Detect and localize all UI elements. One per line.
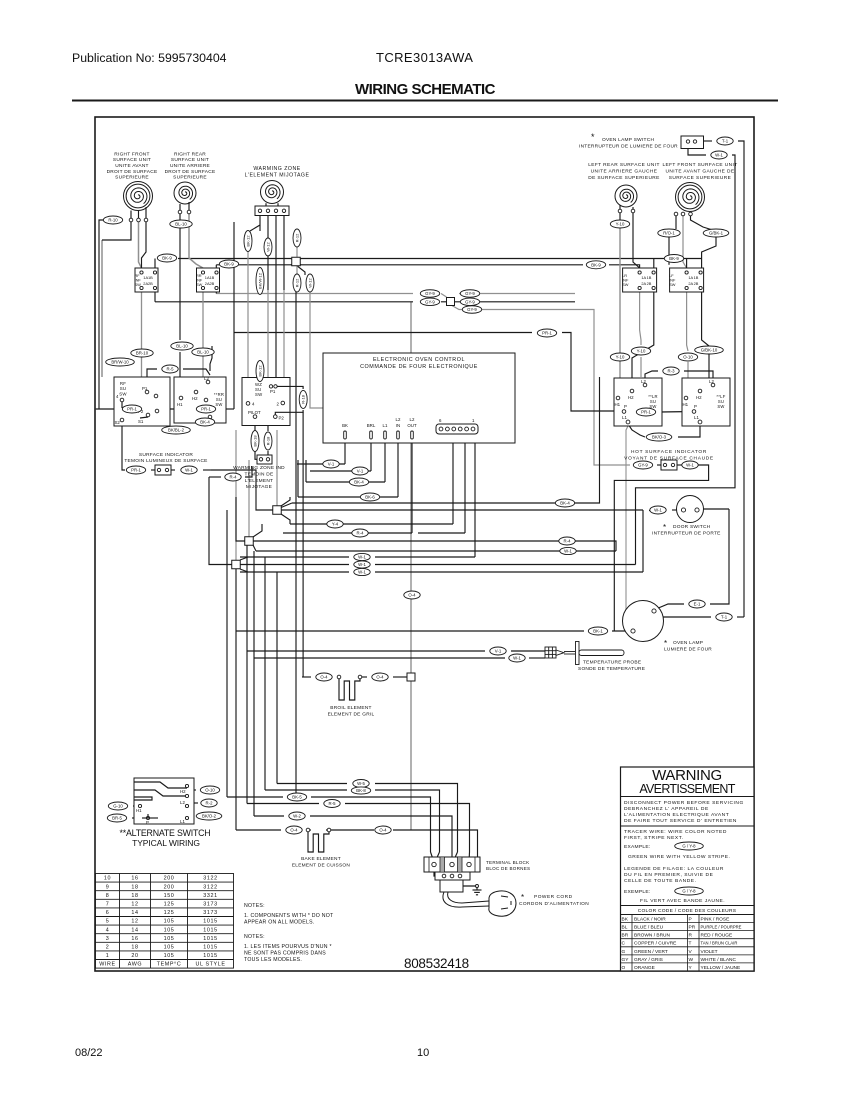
svg-text:W-1: W-1 [358, 562, 366, 567]
wire label G/BK-1 [703, 229, 729, 237]
wire label BL-10 [170, 220, 192, 228]
wire label O-4 broil right [372, 673, 388, 681]
wire label R-5 [162, 365, 178, 373]
svg-text:SUPERIEURE: SUPERIEURE [173, 175, 207, 181]
svg-text:PINK / ROSE: PINK / ROSE [701, 917, 730, 923]
svg-text:DISCONNECT POWER BEFORE SERVIC: DISCONNECT POWER BEFORE SERVICING [624, 800, 744, 806]
wire label W-5 [353, 780, 369, 788]
wire label Y-10 b [631, 347, 650, 355]
svg-text:R-5: R-5 [329, 801, 337, 806]
RF SU SW contacts [121, 402, 123, 408]
svg-text:BLUE / BLEU: BLUE / BLEU [634, 925, 664, 931]
wire label R-18 vertical right of WZ [299, 390, 307, 408]
T-1 chain vertical [704, 140, 713, 142]
right rear coil leads [179, 204, 181, 210]
svg-text:H2: H2 [696, 395, 702, 400]
svg-text:2B: 2B [647, 281, 652, 286]
wire label BK-4 rr [195, 418, 214, 426]
wire label V-1 b [352, 467, 368, 475]
RF INF out to RF SU [141, 292, 143, 377]
RR INF out to L2 [215, 288, 217, 294]
wire label BK-8 [351, 787, 370, 794]
wire label PR-1 lr [636, 408, 655, 416]
wz ind wires [254, 418, 256, 431]
svg-text:2: 2 [106, 945, 110, 951]
svg-text:O-4: O-4 [320, 675, 328, 680]
wire label BK-5 [287, 793, 306, 801]
S2 to indicator wire [122, 422, 125, 470]
svg-text:TRACER WIRE: WIRE COLOR NOTED: TRACER WIRE: WIRE COLOR NOTED [624, 829, 727, 835]
svg-text:2B: 2B [210, 281, 215, 286]
svg-text:AWG: AWG [128, 962, 142, 968]
svg-text:DE FAIRE TOUT SERVICE D’ ENTRE: DE FAIRE TOUT SERVICE D’ ENTRETIEN [624, 818, 737, 824]
svg-text:16: 16 [131, 876, 138, 882]
bundle [277, 783, 347, 785]
svg-text:10: 10 [417, 1047, 429, 1059]
svg-text:EXEMPLE:: EXEMPLE: [624, 889, 650, 895]
left links from squares [211, 470, 273, 510]
svg-text:20: 20 [131, 953, 138, 959]
svg-text:1. COMPONENTS WITH * DO NOT: 1. COMPONENTS WITH * DO NOT [244, 913, 334, 919]
svg-text:HOT SURFACE INDICATOR: HOT SURFACE INDICATOR [631, 449, 707, 455]
LR L1 gray drop [626, 424, 629, 631]
label typical wiring [132, 838, 200, 848]
svg-text:10: 10 [104, 876, 111, 882]
fan A to BK-4 [281, 503, 292, 508]
svg-text:BROWN / BRUN: BROWN / BRUN [634, 933, 671, 939]
wire label BK-18 below WZ [251, 431, 259, 452]
wire label PR-1 rr [196, 405, 215, 413]
svg-text:W-1: W-1 [185, 468, 193, 473]
switch LF INF SW [669, 268, 704, 292]
svg-text:LEGENDE DE FILAGE: LA COULEUR: LEGENDE DE FILAGE: LA COULEUR [624, 866, 724, 872]
RF INF out right [154, 288, 156, 302]
svg-text:W-1: W-1 [686, 463, 694, 468]
svg-text:OUT: OUT [407, 423, 417, 428]
switch RF SU SW box [114, 377, 170, 426]
svg-text:L2: L2 [709, 379, 714, 384]
svg-text:OVEN LAMP SWITCH: OVEN LAMP SWITCH [602, 137, 654, 143]
BK/O-3 links [628, 424, 645, 437]
svg-text:P1: P1 [270, 389, 276, 394]
wire label R-10 [103, 216, 122, 224]
GY-9 drop wire [451, 305, 630, 465]
LF INF to G/BK-10 to L2 [702, 292, 709, 346]
broil element [337, 675, 362, 679]
label surface indicator [124, 452, 207, 464]
svg-text:CELLE DE TOUTE BANDE.: CELLE DE TOUTE BANDE. [624, 878, 697, 884]
svg-text:BK-18: BK-18 [252, 435, 257, 447]
RF pin2 down [139, 222, 142, 268]
left rear unit pins [618, 209, 635, 213]
RR INF top feeds [215, 265, 217, 273]
svg-text:TEMP°C: TEMP°C [157, 962, 182, 968]
svg-text:H1: H1 [615, 402, 621, 407]
header rule [72, 100, 778, 102]
wire label R-3 [663, 367, 679, 375]
svg-text:BL-10: BL-10 [197, 350, 209, 355]
label power cord [534, 894, 573, 900]
svg-text:GY: GY [622, 957, 630, 963]
W-1 wire lower [240, 571, 349, 573]
svg-text:7: 7 [106, 902, 110, 908]
svg-text:RIGHT FRONT: RIGHT FRONT [114, 151, 149, 157]
svg-text:SW: SW [669, 282, 676, 287]
svg-text:Y-4: Y-4 [332, 522, 339, 527]
svg-text:PR-1: PR-1 [542, 331, 552, 336]
svg-text:L1: L1 [180, 819, 185, 824]
svg-text:P2: P2 [279, 416, 285, 421]
svg-text:O: O [622, 965, 626, 971]
RF SU SW pins [120, 390, 159, 422]
svg-text:SW: SW [255, 392, 263, 397]
svg-text:BK-1: BK-1 [593, 629, 603, 634]
svg-text:L1: L1 [622, 415, 627, 420]
svg-text:TOUS LES MODELES.: TOUS LES MODELES. [244, 957, 302, 963]
svg-text:UNITE AVANT GAUCHE DE: UNITE AVANT GAUCHE DE [666, 168, 735, 174]
schematic border frame [95, 117, 754, 971]
svg-text:W-1: W-1 [715, 153, 723, 158]
wire label W-1 x1 [354, 553, 370, 560]
broil stubs [302, 676, 311, 678]
svg-text:R-12: R-12 [294, 233, 299, 242]
wire label W-1 top [711, 151, 727, 159]
svg-text:W-1: W-1 [358, 570, 366, 575]
wire label R-12 vertical [293, 229, 301, 247]
svg-text:FIRST, STRIPE NEXT.: FIRST, STRIPE NEXT. [624, 835, 684, 841]
svg-text:TCRE3013AWA: TCRE3013AWA [376, 50, 473, 65]
W-1 chain vertical [636, 155, 736, 565]
TB entry funnels [431, 852, 435, 862]
svg-text:RED / ROUGE: RED / ROUGE [701, 933, 733, 939]
wire gauge table [96, 874, 234, 969]
svg-text:1015: 1015 [203, 927, 217, 933]
svg-text:8: 8 [106, 893, 110, 899]
svg-text:3173: 3173 [203, 910, 217, 916]
label left rear surface unit [588, 162, 660, 181]
svg-text:WARMING ZONE: WARMING ZONE [253, 166, 300, 172]
svg-text:L'ELEMENT: L'ELEMENT [245, 478, 274, 484]
svg-text:ELEMENT DE CUISSON: ELEMENT DE CUISSON [292, 862, 351, 868]
W-1 wire to connector [240, 556, 349, 558]
label hot surface indicator [624, 449, 714, 461]
wire label W-1 indicator [181, 466, 197, 474]
wire label GY-9 b [420, 298, 439, 306]
wire label V-1 a [323, 460, 339, 468]
svg-text:SW: SW [215, 402, 222, 407]
svg-text:TEMOIN DE: TEMOIN DE [245, 471, 274, 477]
svg-text:SW: SW [717, 404, 724, 409]
svg-text:LEFT FRONT SURFACE UNIT: LEFT FRONT SURFACE UNIT [662, 162, 737, 168]
svg-text:P1: P1 [142, 386, 148, 391]
svg-text:BK-4: BK-4 [200, 420, 210, 425]
svg-text:14: 14 [131, 927, 138, 933]
svg-text:V-1: V-1 [495, 649, 502, 654]
svg-text:L2: L2 [641, 379, 646, 384]
svg-text:18: 18 [131, 945, 138, 951]
svg-text:L2: L2 [204, 376, 209, 381]
svg-text:SURFACE UNIT: SURFACE UNIT [171, 157, 209, 163]
wire label G-10 [108, 802, 127, 810]
svg-text:3122: 3122 [203, 876, 217, 882]
wire label PR-1 rf [122, 405, 141, 413]
svg-text:WARMING ZONE IND: WARMING ZONE IND [233, 465, 285, 471]
svg-text:14: 14 [131, 910, 138, 916]
wire label BK-12 vertical [244, 231, 252, 252]
wz left jog [250, 225, 260, 231]
label oven lamp [673, 640, 703, 646]
svg-text:105: 105 [164, 945, 175, 951]
svg-text:V-1: V-1 [328, 462, 335, 467]
label door switch fr [652, 531, 721, 537]
svg-text:NE SONT PAS COMPRIS DANS: NE SONT PAS COMPRIS DANS [244, 951, 326, 957]
electronic oven control box [323, 353, 515, 443]
svg-text:1015: 1015 [203, 936, 217, 942]
wire label GY-9 c [460, 290, 479, 298]
EOC terminal labels [342, 417, 417, 428]
wire label W-1 x3 [354, 568, 370, 575]
wire label BK-9 left [157, 254, 176, 262]
power cord junction box [440, 880, 463, 892]
svg-text:O-4: O-4 [379, 828, 387, 833]
svg-text:BK/O-2: BK/O-2 [202, 814, 217, 819]
svg-text:LUMIERE DE FOUR: LUMIERE DE FOUR [664, 647, 712, 653]
wire label R-4 mid [352, 529, 368, 537]
ground [463, 886, 477, 890]
svg-text:W: W [689, 957, 694, 963]
svg-text:BLACK / NOIR: BLACK / NOIR [634, 917, 666, 923]
broil element prongs [339, 679, 360, 700]
bowtie diagonals [291, 259, 301, 265]
wire label Y-4 [327, 520, 343, 528]
label WARNING [652, 767, 722, 784]
svg-text:LEFT REAR SURFACE UNIT: LEFT REAR SURFACE UNIT [588, 162, 660, 168]
svg-text:BL-10: BL-10 [176, 344, 188, 349]
svg-text:105: 105 [164, 953, 175, 959]
svg-text:150: 150 [164, 893, 175, 899]
svg-text:BK/BL-2: BK/BL-2 [168, 428, 185, 433]
wire label W-12 vertical [264, 238, 272, 256]
warming zone coil leads [265, 203, 267, 206]
wire label BK-9 mid [219, 260, 238, 268]
svg-text:GY-9: GY-9 [465, 299, 475, 304]
wire label G/BK-10 [695, 346, 724, 354]
wire label Y-10 a [610, 353, 629, 361]
svg-text:SW: SW [135, 282, 142, 287]
wire label BK-9 right [586, 261, 605, 269]
svg-text:P: P [694, 404, 697, 409]
TB lower link [434, 867, 444, 876]
svg-text:L1: L1 [694, 415, 699, 420]
LR pin1 stub [619, 213, 621, 220]
terminal block lower row [435, 872, 470, 880]
svg-text:105: 105 [164, 936, 175, 942]
WZ P1 loop wiring [277, 386, 303, 389]
junction square C [232, 560, 241, 569]
svg-text:9: 9 [106, 884, 110, 890]
terminal block [424, 857, 480, 872]
wire label BL-10 rr1 [171, 342, 193, 350]
svg-text:O-10: O-10 [683, 355, 693, 360]
svg-text:NOTES:: NOTES: [244, 934, 265, 940]
label electronic oven control [360, 357, 478, 370]
svg-text:RIGHT REAR: RIGHT REAR [174, 151, 206, 157]
svg-text:4: 4 [106, 927, 110, 933]
svg-text:AVERTISSEMENT: AVERTISSEMENT [639, 782, 735, 796]
svg-text:TERMINAL BLOCK: TERMINAL BLOCK [486, 860, 530, 865]
wz connector drops [259, 216, 261, 232]
risers above squares [276, 430, 278, 506]
svg-text:DU FIL EN PREMIER, SUIVIE DE: DU FIL EN PREMIER, SUIVIE DE [624, 872, 714, 878]
label LF SU SW [716, 394, 725, 409]
RF INF top feeds [154, 259, 156, 273]
label temperature probe [583, 660, 641, 666]
EOC drops [344, 439, 346, 464]
svg-text:L'ELEMENT MIJOTAGE: L'ELEMENT MIJOTAGE [245, 173, 310, 179]
svg-text:L1: L1 [383, 423, 388, 428]
warning fil vert [640, 898, 725, 904]
label notes en [244, 903, 265, 909]
svg-text:WIRE: WIRE [99, 962, 115, 968]
svg-text:GY-9: GY-9 [425, 291, 435, 296]
wire label R-12 vertical 2 [293, 274, 301, 292]
svg-text:C: C [622, 941, 626, 947]
warning text tracer [624, 829, 727, 841]
svg-text:808532418: 808532418 [404, 956, 469, 971]
svg-text:PR-1: PR-1 [127, 407, 137, 412]
R-4 long wire [253, 540, 560, 542]
alt switch stubs [133, 805, 140, 807]
svg-text:1: 1 [106, 953, 110, 959]
svg-text:H2: H2 [628, 395, 634, 400]
svg-text:GY-9: GY-9 [425, 299, 435, 304]
left front unit pins [674, 212, 692, 216]
left rear surface unit coil [615, 185, 637, 207]
svg-text:125: 125 [164, 910, 175, 916]
wire label BK-9 far right [664, 255, 683, 263]
wire label W-1 x2 [354, 561, 370, 568]
svg-text:BK/W-12: BK/W-12 [257, 272, 262, 289]
svg-text:G: G [622, 949, 626, 955]
junction broil [407, 673, 415, 681]
R-3 link [645, 371, 658, 385]
switch RR SU SW box [174, 377, 226, 423]
svg-text:L2: L2 [410, 417, 415, 422]
LF pin to R/O-1 down [675, 216, 677, 229]
wire label R-5 bottom [324, 800, 340, 808]
svg-text:G-10: G-10 [113, 804, 123, 809]
wire label R-18 below WZ [264, 432, 272, 450]
label notes fr [244, 934, 265, 940]
svg-text:200: 200 [164, 876, 175, 882]
wire label V-1 probe [490, 647, 506, 655]
door switch stubs [672, 509, 677, 511]
wire label GY-9 a [420, 290, 439, 298]
gray y293 wire [216, 293, 413, 295]
junction square B [245, 537, 254, 546]
wire label GY-9 hsi [633, 461, 652, 469]
gray y293 right [459, 293, 575, 295]
svg-text:BRL: BRL [367, 423, 376, 428]
svg-text:INTERRUPTEUR DE PORTE: INTERRUPTEUR DE PORTE [652, 531, 721, 537]
wire label W-1 door [650, 506, 666, 514]
label WZ SU SW [255, 382, 263, 397]
wire label O-4 bake left [286, 826, 302, 834]
BK-4 long wire [292, 502, 556, 504]
svg-text:BK: BK [342, 423, 348, 428]
svg-text:1B: 1B [210, 275, 215, 280]
LF pin2 down [683, 216, 687, 268]
svg-text:PR: PR [689, 925, 696, 931]
warming zone indicator lamp [257, 455, 272, 464]
gray riser [410, 302, 412, 831]
svg-text:H2: H2 [180, 789, 186, 794]
wire label R-4 right [559, 537, 575, 545]
svg-text:DOOR SWITCH: DOOR SWITCH [673, 524, 711, 530]
wire label GY-9 e [462, 306, 481, 314]
surface ind stubs [151, 469, 155, 471]
svg-text:R-10: R-10 [108, 218, 118, 223]
wire label W-1 hsi [682, 461, 698, 469]
wire label BK-12 above WZ [256, 361, 264, 382]
R-4 left stubs [209, 476, 221, 478]
svg-text:POWER CORD: POWER CORD [534, 894, 573, 900]
E-1 wire [656, 604, 684, 609]
R-5 link wire [147, 369, 157, 387]
svg-text:1B: 1B [647, 275, 652, 280]
svg-text:2B: 2B [148, 281, 153, 286]
fan C [240, 557, 248, 560]
svg-text:P: P [624, 404, 627, 409]
svg-text:W-2: W-2 [293, 814, 301, 819]
junction square A [273, 506, 282, 515]
svg-text:W-5: W-5 [357, 781, 365, 786]
terminal block dividers [428, 857, 430, 872]
temperature probe [545, 642, 624, 665]
svg-text:R-3: R-3 [668, 369, 676, 374]
LF pin3 to G/BK-1 [691, 216, 712, 230]
surface indicator lamp [155, 465, 171, 475]
svg-text:BK-4: BK-4 [560, 501, 570, 506]
wire label W-1 x0 [560, 547, 576, 554]
switch LR SU SW box [614, 378, 662, 426]
wire label BR-5 [107, 814, 126, 822]
warming zone connector strip [255, 206, 289, 216]
svg-text:H1: H1 [136, 808, 142, 813]
label terminal block [486, 860, 530, 871]
svg-text:Y-10: Y-10 [616, 355, 625, 360]
svg-text:EXAMPLE:: EXAMPLE: [624, 844, 650, 850]
switch RF INF SW [135, 268, 159, 292]
W-1 wire to door switch [281, 509, 643, 511]
svg-text:BK-9: BK-9 [591, 262, 601, 267]
T-1 lamp wire [663, 616, 711, 618]
svg-text:16: 16 [131, 936, 138, 942]
svg-text:COLOR CODE / CODE DES COULEURS: COLOR CODE / CODE DES COULEURS [638, 908, 737, 914]
LR pin2 to INF [633, 213, 640, 268]
svg-text:G/BK-10: G/BK-10 [701, 348, 718, 353]
svg-text:TEMPERATURE PROBE: TEMPERATURE PROBE [583, 660, 641, 666]
alternate switch box [134, 778, 194, 824]
P stubs [626, 411, 632, 414]
svg-text:1015: 1015 [203, 953, 217, 959]
BK-1 wire long [236, 630, 584, 632]
svg-text:3173: 3173 [203, 902, 217, 908]
warning legende [624, 866, 724, 884]
EOC connector strip [436, 424, 478, 434]
right front surface unit coil [124, 182, 153, 211]
svg-text:O-4: O-4 [290, 828, 298, 833]
